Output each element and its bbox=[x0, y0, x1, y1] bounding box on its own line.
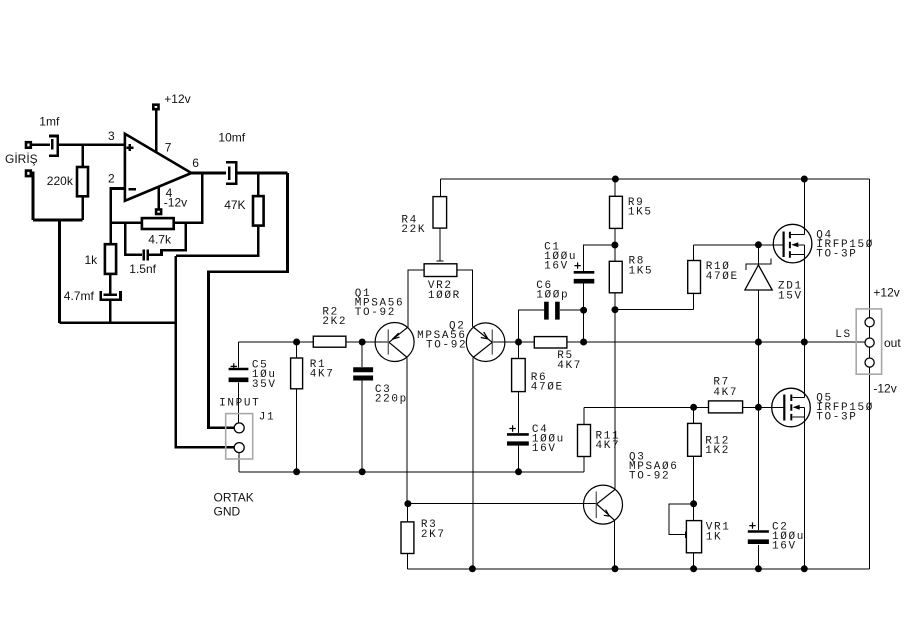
capacitor 1mf bbox=[49, 136, 58, 156]
node R12 VR1 junction bbox=[690, 500, 697, 507]
wire VR2 left to Q1 emitter bbox=[408, 270, 424, 324]
wire C2 bottom lead bbox=[757, 545, 759, 569]
op-amp U1 bbox=[125, 134, 191, 201]
wire R1 leads bbox=[296, 342, 298, 472]
resistor R12 bbox=[688, 423, 702, 456]
svg-text:4.7k: 4.7k bbox=[148, 232, 172, 246]
capacitor C5 bbox=[229, 363, 249, 380]
svg-text:6: 6 bbox=[192, 156, 199, 170]
wire C 1mf to op-amp pin 3 bbox=[58, 143, 125, 146]
node Q2-base R6 C6 junction bbox=[515, 339, 522, 346]
svg-text:16V: 16V bbox=[532, 443, 557, 455]
wire +12v top rail bbox=[441, 178, 870, 180]
svg-text:47K: 47K bbox=[224, 198, 245, 212]
capacitor C4 bbox=[507, 425, 529, 443]
svg-text:1K5: 1K5 bbox=[628, 206, 653, 218]
node R7 R12 junction bbox=[690, 404, 697, 411]
wire output staircase to J1 pin 1 bbox=[209, 173, 288, 428]
connector J1 bbox=[226, 414, 253, 459]
wire R10 leads bbox=[693, 245, 695, 310]
resistor 220k bbox=[77, 167, 88, 196]
node C3 ground junction bbox=[359, 468, 366, 475]
svg-text:ORTAK: ORTAK bbox=[214, 491, 254, 505]
transistor Q3 bbox=[584, 485, 623, 524]
svg-text:1K2: 1K2 bbox=[705, 445, 730, 457]
resistor R11 bbox=[578, 425, 591, 457]
node R2 C3 Q1-base junction bbox=[359, 339, 366, 346]
capacitor 10mf bbox=[226, 162, 236, 184]
node Q4 gate ZD1 junction bbox=[755, 241, 762, 248]
wire Q3 base line bbox=[408, 503, 597, 505]
wire R6 leads bbox=[518, 342, 520, 433]
wire GIRIS-2 down bbox=[30, 173, 33, 220]
wire right edge +12v to LS pin1 bbox=[869, 179, 871, 318]
terminal -12v bbox=[156, 210, 161, 215]
wire Q3 emitter lead bbox=[614, 521, 616, 569]
wire Q2 collector lead bbox=[472, 357, 474, 569]
svg-text:10mf: 10mf bbox=[218, 131, 245, 145]
wire down to 4.7mf bus bbox=[58, 220, 61, 323]
resistor R2 bbox=[313, 336, 346, 347]
svg-text:2K2: 2K2 bbox=[322, 316, 347, 328]
node C2 bottom junction bbox=[755, 565, 762, 572]
wire R4 to VR2 wiper bbox=[439, 228, 441, 261]
potentiometer VR1 bbox=[686, 521, 701, 553]
op-amp minus input mark bbox=[128, 188, 136, 191]
capacitor C2 bbox=[748, 522, 769, 541]
svg-text:J1: J1 bbox=[259, 411, 276, 423]
terminal GIRIS-2 bbox=[26, 171, 31, 177]
svg-text:1ØØp: 1ØØp bbox=[536, 290, 569, 302]
capacitor C3 bbox=[353, 370, 373, 378]
wire rail to R4 bbox=[440, 179, 442, 197]
connector LS bbox=[856, 309, 881, 374]
wire Q2 emitter lead bbox=[472, 270, 474, 327]
svg-text:47ØE: 47ØE bbox=[531, 382, 564, 394]
wire R11 column bbox=[583, 407, 585, 472]
wire junction down to 220k bbox=[81, 145, 84, 167]
svg-text:4.7mf: 4.7mf bbox=[64, 289, 95, 303]
capacitor 4.7mf bbox=[101, 291, 121, 300]
svg-text:1K: 1K bbox=[706, 531, 723, 543]
svg-text:4K7: 4K7 bbox=[713, 387, 738, 399]
wire ZD1 anode column through output to C2 bbox=[757, 290, 759, 530]
svg-text:1k: 1k bbox=[85, 253, 99, 267]
wire 47K top bbox=[257, 173, 260, 196]
terminal GIRIS-1 bbox=[26, 142, 31, 148]
node Q2 collector bottom junction bbox=[469, 565, 476, 572]
resistor 4.7k feedback bbox=[142, 218, 174, 229]
resistor 1k bbox=[105, 244, 116, 274]
wire input to C 1mf bbox=[31, 143, 50, 146]
VR1 wiper tick bbox=[684, 531, 686, 538]
wire R12 leads bbox=[693, 407, 695, 504]
svg-text:2K7: 2K7 bbox=[421, 529, 446, 541]
wire common return down to J1 pin 2 bbox=[176, 256, 234, 448]
wire VR1 leads bbox=[693, 504, 695, 569]
potentiometer VR2 bbox=[424, 264, 457, 277]
svg-text:47ØE: 47ØE bbox=[706, 271, 739, 283]
wire VR1 wiper arm bbox=[669, 504, 694, 535]
wire ground rail y471.8 bbox=[239, 471, 584, 473]
wire ZD1 top lead bbox=[757, 245, 759, 264]
svg-text:4K7: 4K7 bbox=[310, 368, 335, 380]
node C5 R1 R2 junction bbox=[293, 339, 300, 346]
wire pin 7 supply bbox=[155, 110, 158, 152]
svg-text:15V: 15V bbox=[778, 290, 803, 302]
wire C4 bottom lead bbox=[518, 446, 520, 472]
svg-text:1mf: 1mf bbox=[39, 115, 60, 129]
svg-text:-12v: -12v bbox=[873, 381, 896, 395]
wire Q1 emitter lead bbox=[407, 270, 409, 327]
node Q4-source Q5-source out junction bbox=[801, 339, 808, 346]
svg-text:TO-92: TO-92 bbox=[426, 340, 467, 352]
node R8 R10 junction bbox=[612, 306, 619, 313]
svg-text:7: 7 bbox=[165, 140, 172, 154]
wire 4.7mf bus y322.8 bbox=[60, 321, 176, 324]
wire 4.7mf bottom bbox=[109, 300, 112, 323]
svg-text:1.5nf: 1.5nf bbox=[129, 262, 156, 276]
wire ground bus y220 bbox=[33, 219, 83, 222]
resistor R4 bbox=[433, 197, 447, 229]
transistor Q2 bbox=[466, 323, 505, 362]
node R1 ground junction bbox=[293, 468, 300, 475]
mosfet Q5 bbox=[772, 342, 811, 569]
wire 1.5nf right branch bbox=[149, 223, 186, 255]
svg-text:TO-3P: TO-3P bbox=[816, 249, 857, 261]
node Q5 drain bottom junction bbox=[801, 565, 808, 572]
node Q4 drain rail junction bbox=[801, 176, 808, 183]
wire C6 riser and leads bbox=[519, 310, 584, 342]
wire R9 column bbox=[614, 179, 616, 261]
svg-text:220k: 220k bbox=[47, 174, 74, 188]
resistor R7 bbox=[709, 401, 743, 413]
node C6 C1 junction bbox=[580, 307, 587, 314]
svg-text:LS: LS bbox=[835, 329, 852, 341]
wire op-amp output bbox=[191, 172, 226, 175]
node ZD1 output junction bbox=[755, 339, 762, 346]
wire 47K bottom return bbox=[176, 226, 259, 256]
wire Q5 gate line y407.3 bbox=[584, 406, 784, 408]
wire R8 bottom to Q3 collector bbox=[614, 293, 616, 490]
svg-text:1K5: 1K5 bbox=[629, 265, 654, 277]
svg-text:TO-92: TO-92 bbox=[355, 307, 396, 319]
wire Q1 collector lead bbox=[406, 357, 408, 503]
resistor R8 bbox=[609, 261, 622, 293]
wire C1 bottom lead bbox=[583, 284, 585, 342]
node R5 C1 junction bbox=[580, 339, 587, 346]
wire VR2 right to Q2 emitter bbox=[457, 270, 473, 323]
svg-text:GND: GND bbox=[214, 505, 241, 519]
resistor 47K bbox=[253, 196, 264, 226]
capacitor C6 bbox=[546, 302, 557, 320]
wire output to right bbox=[236, 172, 287, 175]
node Q1-collector R3 base-line junction bbox=[404, 500, 411, 507]
svg-text:4K7: 4K7 bbox=[596, 440, 621, 452]
svg-text:16V: 16V bbox=[772, 541, 797, 553]
wire 4.7k right to output node bbox=[174, 173, 203, 223]
svg-text:TO-3P: TO-3P bbox=[816, 411, 857, 423]
wire 220k bottom bbox=[81, 196, 84, 220]
svg-text:+12v: +12v bbox=[873, 285, 899, 299]
wire pin 4 supply bbox=[158, 187, 161, 209]
node Q3 emitter bottom junction bbox=[612, 565, 619, 572]
wire C5 bottom to J1 pin 1 bbox=[238, 382, 240, 422]
capacitor C1 bbox=[574, 262, 595, 281]
mosfet Q4 bbox=[773, 179, 812, 342]
svg-text:35V: 35V bbox=[252, 379, 277, 391]
svg-text:GİRİŞ: GİRİŞ bbox=[5, 152, 38, 166]
resistor R9 bbox=[610, 196, 623, 228]
resistor R5 bbox=[534, 337, 567, 348]
transistor Q1 bbox=[375, 323, 414, 362]
wire feedback to 4.7k bbox=[111, 222, 142, 225]
wire J1 pin2 to ground rail bbox=[238, 453, 240, 472]
svg-text:16V: 16V bbox=[544, 261, 569, 273]
wire bottom rail -12v bbox=[408, 568, 870, 570]
zener diode ZD1 bbox=[745, 258, 772, 290]
svg-text:220p: 220p bbox=[375, 394, 408, 406]
wire R10 top to Q4 gate node bbox=[694, 244, 758, 246]
op-amp plus input mark bbox=[126, 144, 133, 151]
wire C1 top to R8 R9 node bbox=[584, 245, 615, 271]
wire R8-R10 bottom link bbox=[615, 309, 694, 311]
svg-text:22K: 22K bbox=[401, 224, 426, 236]
svg-text:3: 3 bbox=[108, 129, 115, 143]
wire preamp input line y342 bbox=[239, 341, 389, 343]
wire C3 leads bbox=[361, 342, 363, 472]
capacitor 1.5nf bbox=[144, 250, 148, 261]
terminal +12v bbox=[153, 105, 158, 110]
node ZD1 gate-line junction bbox=[755, 404, 762, 411]
node R9 top rail junction bbox=[612, 176, 619, 183]
wire pin 2 to feedback node bbox=[111, 189, 125, 245]
wire 1.5nf left branch bbox=[125, 223, 142, 255]
wire output line Q2 base to LS bbox=[491, 341, 864, 343]
resistor R6 bbox=[512, 359, 526, 392]
svg-text:2: 2 bbox=[108, 171, 115, 185]
svg-text:TO-92: TO-92 bbox=[629, 471, 670, 483]
VR2 wiper tick bbox=[437, 260, 444, 262]
wire 1k to 4.7mf bbox=[109, 274, 112, 294]
resistor R1 bbox=[291, 358, 303, 389]
svg-text:4K7: 4K7 bbox=[557, 360, 582, 372]
resistor R3 bbox=[401, 522, 414, 554]
svg-text:out: out bbox=[884, 336, 901, 350]
svg-text:-12v: -12v bbox=[164, 196, 187, 210]
node C4 ground junction bbox=[515, 468, 522, 475]
resistor R10 bbox=[688, 261, 701, 294]
wire R3 leads bbox=[407, 504, 409, 569]
svg-text:1ØØR: 1ØØR bbox=[428, 290, 461, 302]
wire C5 top lead bbox=[238, 342, 240, 368]
svg-text:INPUT: INPUT bbox=[219, 397, 260, 409]
wire LS internal links bbox=[869, 327, 871, 569]
wire Q4 gate bbox=[758, 244, 783, 246]
svg-text:+12v: +12v bbox=[164, 92, 190, 106]
node R8 R9 C1 junction bbox=[611, 242, 618, 249]
node VR1 bottom junction bbox=[690, 565, 697, 572]
